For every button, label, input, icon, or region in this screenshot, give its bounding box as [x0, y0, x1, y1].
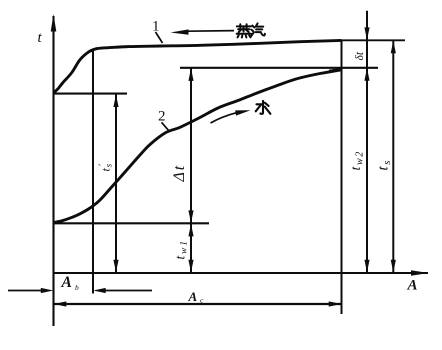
x-axis arrowhead: [411, 270, 429, 275]
x-axis: [53, 272, 428, 274]
extension line x=93 (end of subcooling zone): [92, 49, 94, 294]
steam level extension line: [342, 39, 406, 41]
svg-text:ts: ts: [376, 159, 394, 170]
dimension line delta-t / t_w2 at x=367: [366, 11, 368, 273]
t_w1 level reference line: [54, 222, 210, 224]
leader line for label 1: [156, 32, 163, 43]
svg-text:Δt: Δt: [171, 164, 188, 182]
svg-text:b: b: [75, 283, 79, 292]
water flow arrow: [211, 113, 237, 123]
curve 2 water: [54, 70, 342, 223]
y-axis arrowhead: [51, 14, 57, 32]
dimension line t_s at x=393.3: [392, 41, 394, 273]
extension line x=341.5 (right end of surface): [341, 40, 343, 314]
t_w2 level reference line: [180, 67, 378, 69]
dimension line t_s' at x=116: [115, 95, 117, 273]
svg-text:1: 1: [152, 19, 160, 35]
A_b dimension line (outside arrows): [8, 290, 43, 292]
A_c dimension line: [54, 303, 342, 305]
svg-text:2: 2: [158, 109, 166, 125]
svg-text:A: A: [61, 274, 72, 291]
steam flow arrow: [188, 30, 234, 33]
dimension line dt / t_w1 at x=191: [190, 68, 192, 272]
curve 1 steam: [54, 40, 342, 93]
condensate level reference line: [54, 93, 128, 95]
svg-text:A: A: [407, 278, 418, 294]
svg-text:tw1: tw1: [173, 239, 190, 259]
svg-text:t′s: t′s: [97, 163, 114, 171]
svg-text:tw2: tw2: [349, 150, 365, 170]
svg-text:A: A: [188, 289, 198, 304]
hanzi water shui: [256, 101, 271, 114]
svg-text:t: t: [38, 30, 43, 46]
y-axis: [52, 16, 54, 326]
hanzi steam zheng: [237, 24, 251, 37]
water curve end wedge: [329, 69, 342, 71]
svg-text:δt: δt: [354, 51, 366, 60]
leader line for label 2: [162, 122, 170, 131]
hanzi steam qi: [251, 23, 265, 36]
